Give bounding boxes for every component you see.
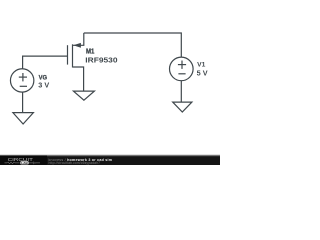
svg-text:IRF9530: IRF9530 — [85, 55, 117, 64]
wire V1 bottom — [180, 81, 182, 102]
VG plus sign — [19, 76, 27, 78]
wire VG bottom — [22, 92, 24, 112]
watermark logo resistor squiggle — [5, 162, 20, 164]
VG minus sign — [20, 85, 27, 87]
V1 minus sign — [178, 73, 185, 75]
wire top rail to V1 — [84, 33, 182, 57]
wire gate to VG — [23, 56, 68, 69]
voltage source VG circle — [10, 69, 33, 92]
voltage source V1 circle — [170, 57, 194, 81]
ground under V1 — [173, 102, 192, 112]
V1 plus sign — [178, 64, 186, 66]
svg-text:VG: VG — [39, 74, 47, 81]
watermark badge — [0, 156, 47, 165]
transistor M1 channel — [72, 44, 74, 67]
transistor M1 source lead — [73, 33, 84, 45]
ground under VG — [13, 113, 34, 124]
svg-text:5 V: 5 V — [197, 71, 208, 78]
svg-text:LAB: LAB — [21, 161, 27, 165]
transistor M1 source arrow (PMOS) — [73, 43, 81, 48]
watermark bar — [0, 156, 220, 165]
svg-text:3 V: 3 V — [38, 83, 49, 90]
svg-text:V1: V1 — [197, 62, 205, 69]
transistor M1 gate bar — [67, 45, 69, 64]
svg-text:http://circuitlab.com/c6sypada: http://circuitlab.com/c6sypadah7 — [49, 161, 101, 165]
watermark logo LAB box — [20, 161, 28, 164]
watermark logo cap marks — [29, 162, 33, 164]
transistor M1 drain lead — [73, 67, 84, 91]
ground under M1 drain — [73, 91, 94, 100]
